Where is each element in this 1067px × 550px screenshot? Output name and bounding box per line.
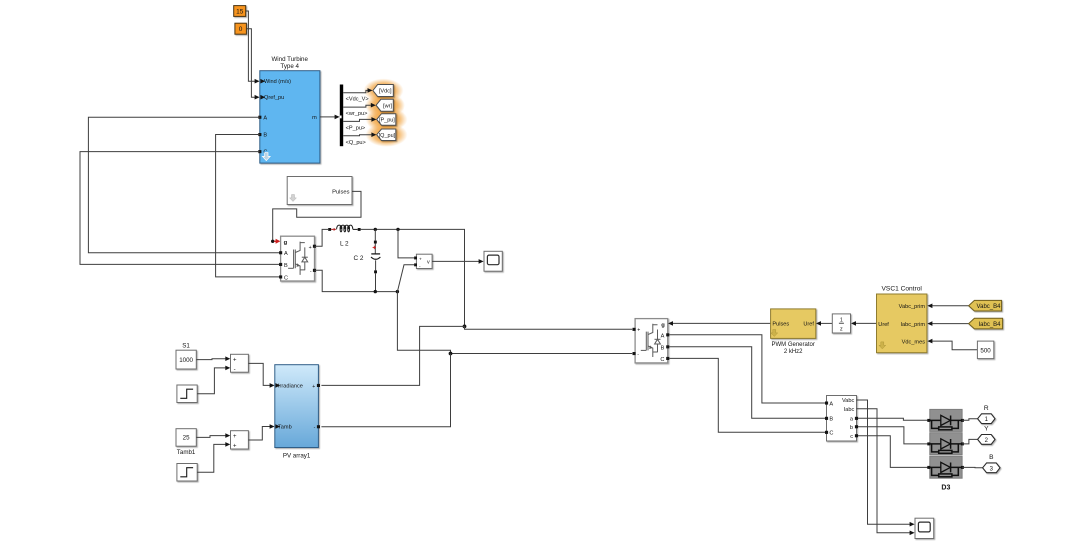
IGBT and diode icon xyxy=(641,324,661,357)
diode block D3-1 xyxy=(927,409,964,431)
svg-text:Wind (m/s): Wind (m/s) xyxy=(264,79,291,85)
from tag Iabc_B4 xyxy=(969,318,1003,329)
svg-text:<Q_pu>: <Q_pu> xyxy=(346,140,366,146)
svg-text:Vabc_prim: Vabc_prim xyxy=(899,304,926,310)
step block Step xyxy=(177,385,197,403)
svg-text:Pulses: Pulses xyxy=(772,322,789,328)
highlight glow behind goto tags xyxy=(364,79,408,147)
wire D3-1 to port 1 xyxy=(962,419,978,421)
wire Step1 to sum2 xyxy=(197,442,230,472)
svg-text:D3: D3 xyxy=(941,484,950,491)
svg-text:+: + xyxy=(637,328,640,334)
svg-text:B: B xyxy=(989,454,994,461)
svg-text:Tamb: Tamb xyxy=(278,425,292,431)
svg-text:[P_pu]: [P_pu] xyxy=(379,118,395,124)
svg-text:<Vdc_V>: <Vdc_V> xyxy=(346,97,369,103)
wire inverter C to measurement C xyxy=(669,358,826,432)
connection port 2 xyxy=(978,426,995,445)
svg-text:A: A xyxy=(263,115,267,121)
svg-text:+: + xyxy=(309,245,312,251)
svg-text:Y: Y xyxy=(984,426,989,433)
svg-text:b: b xyxy=(850,425,853,431)
wire VSC Uref to unit delay xyxy=(851,321,877,326)
sum block Sum1 xyxy=(231,354,249,373)
constant S1 1000 xyxy=(176,342,196,369)
svg-text:S1: S1 xyxy=(182,342,190,349)
wire measurement a to diode D3-1 xyxy=(858,418,929,420)
svg-text:[Q_pu]: [Q_pu] xyxy=(379,133,396,139)
svg-text:B: B xyxy=(263,133,267,139)
wire tap to voltage measurement plus xyxy=(398,229,414,258)
wire 1000 to sum1 xyxy=(196,356,230,361)
svg-text:C: C xyxy=(829,431,833,437)
step block Step1 xyxy=(177,464,197,482)
svg-text:<P_pu>: <P_pu> xyxy=(346,126,366,132)
wire converter minus to dc minus rail xyxy=(315,270,400,293)
svg-text:Iabc: Iabc xyxy=(844,407,855,413)
red flow arrow at converter g input xyxy=(274,239,280,244)
connection port 1 xyxy=(978,405,995,424)
wire D3-2 to port 2 xyxy=(962,439,978,444)
unit delay 1/z xyxy=(832,314,850,333)
svg-text:-: - xyxy=(310,269,312,275)
wire turbine B to converter C xyxy=(216,135,281,277)
svg-text:g: g xyxy=(661,323,665,329)
VSC1 Control block xyxy=(877,286,927,353)
wire Sum1 to Irradiance xyxy=(248,363,274,387)
svg-text:1: 1 xyxy=(840,318,843,324)
svg-text:25: 25 xyxy=(183,435,190,442)
svg-text:R: R xyxy=(984,405,989,412)
wire bus output P_pu xyxy=(343,117,376,122)
wire turbine C to converter B xyxy=(80,152,281,265)
svg-text:-: - xyxy=(314,425,316,431)
svg-text:Irradiance: Irradiance xyxy=(278,384,303,390)
svg-text:A: A xyxy=(829,401,833,407)
wire 25 to sum2 xyxy=(196,433,230,438)
goto tag Q_pu xyxy=(377,129,396,141)
svg-text:Uref: Uref xyxy=(878,322,889,328)
svg-text:-: - xyxy=(637,352,639,358)
svg-text:A: A xyxy=(284,251,288,257)
svg-text:B: B xyxy=(829,417,833,423)
dc plus rail to PV plus xyxy=(321,326,464,385)
svg-text:<wr_pu>: <wr_pu> xyxy=(346,111,368,117)
subsystem Pulses (boost control) xyxy=(287,177,352,205)
wire L2 to dc plus rail xyxy=(361,228,467,329)
capacitor C2 xyxy=(354,229,381,291)
svg-text:Type 4: Type 4 xyxy=(280,63,299,70)
bus selector xyxy=(340,85,343,147)
wire constant 0 to Qref_pu input xyxy=(246,29,259,100)
svg-text:PV array1: PV array1 xyxy=(283,452,311,459)
scope1 xyxy=(484,251,502,271)
sum block Sum2 xyxy=(231,431,249,450)
wire Pulses output to converter g xyxy=(271,191,361,243)
svg-text:Uref: Uref xyxy=(803,322,814,328)
wire converter + to inductor L2 xyxy=(315,229,329,246)
goto tag wr xyxy=(376,99,393,111)
wire unit delay to PWM Uref xyxy=(816,321,832,326)
svg-text:+: + xyxy=(312,384,315,390)
svg-text:Vabc: Vabc xyxy=(842,398,855,404)
svg-text:Qref_pu: Qref_pu xyxy=(264,95,284,101)
svg-text:g: g xyxy=(284,240,288,246)
wire measurement Iabc to scope2 xyxy=(857,409,915,535)
svg-text:C: C xyxy=(660,357,664,363)
from tag Vabc_B4 xyxy=(969,300,1002,311)
wire from tag Iabc_B4 to VSC xyxy=(927,321,968,326)
svg-text:[wr]: [wr] xyxy=(383,103,392,109)
wire voltage measurement to scope1 xyxy=(432,259,484,264)
svg-text:m: m xyxy=(312,115,317,121)
svg-text:+: + xyxy=(419,257,422,262)
svg-text:2 kHz2: 2 kHz2 xyxy=(784,349,803,355)
svg-text:B: B xyxy=(284,263,288,269)
inductor L2 xyxy=(328,225,360,247)
svg-text:+: + xyxy=(233,434,237,440)
svg-text:+: + xyxy=(233,357,237,363)
wire Sum2 to Tamb xyxy=(248,424,274,440)
three-phase VI measurement block xyxy=(825,396,858,442)
wire from tag Vabc_B4 to VSC xyxy=(927,304,968,309)
connection port 3 xyxy=(983,454,1000,473)
dc minus rail to inverter minus xyxy=(397,292,632,356)
scope2 xyxy=(915,518,934,538)
dc plus rail to inverter plus xyxy=(465,326,633,329)
svg-text:B: B xyxy=(661,345,665,351)
IGBT and diode icon xyxy=(288,242,308,275)
wire turbine m output to bus selector xyxy=(320,115,340,120)
svg-text:[Vdc]: [Vdc] xyxy=(379,89,392,95)
svg-text:C: C xyxy=(284,275,288,281)
PWM Generator block xyxy=(771,309,816,355)
svg-text:Tamb1: Tamb1 xyxy=(177,449,196,456)
inverter U2 bridge xyxy=(633,319,670,363)
svg-text:Iabc_prim: Iabc_prim xyxy=(900,322,925,328)
svg-text:z: z xyxy=(840,327,843,333)
dc minus rail to PV minus xyxy=(321,354,450,427)
wire tap to voltage measurement minus (diagonal) xyxy=(397,265,414,292)
PV array1 block xyxy=(275,365,320,460)
wire measurement Vabc to scope2 xyxy=(857,400,915,527)
wire D3-3 to port 3 xyxy=(962,466,983,468)
wire PWM pulses to inverter g xyxy=(668,321,771,326)
svg-text:c: c xyxy=(850,434,853,440)
wire measurement c to diode D3-3 xyxy=(858,436,929,468)
svg-text:C 2: C 2 xyxy=(354,255,364,262)
wire inverter A to measurement A xyxy=(669,335,826,403)
svg-text:15: 15 xyxy=(236,8,244,15)
svg-text:0: 0 xyxy=(239,26,243,33)
constant 500 xyxy=(977,341,993,359)
wire bus output Vdc_V xyxy=(343,88,372,93)
goto tag P_pu xyxy=(377,114,396,126)
svg-text:Vabc_B4: Vabc_B4 xyxy=(977,304,1002,310)
svg-text:VSC1 Control: VSC1 Control xyxy=(882,286,923,293)
svg-text:Iabc_B4: Iabc_B4 xyxy=(978,322,1001,328)
svg-text:v: v xyxy=(427,260,430,266)
constant block 0 xyxy=(235,23,247,34)
wire measurement b to diode D3-2 xyxy=(858,427,929,444)
diode block D3-3 xyxy=(927,456,964,478)
wire constant 500 to VSC Vdc_mes xyxy=(927,339,977,350)
svg-text:Pulses: Pulses xyxy=(332,190,350,196)
Wind Turbine Type 4 block xyxy=(258,56,320,163)
goto tag Vdc xyxy=(373,85,393,97)
svg-text:+: + xyxy=(233,443,237,449)
wire constant 15 to Wind input xyxy=(246,11,260,84)
svg-text:Wind Turbine: Wind Turbine xyxy=(271,56,308,63)
svg-text:500: 500 xyxy=(980,347,991,354)
constant Tamb1 25 xyxy=(176,429,196,456)
svg-text:Vdc_mes: Vdc_mes xyxy=(902,339,926,345)
wire bus output Q_pu xyxy=(343,132,376,137)
svg-text:A: A xyxy=(661,333,665,339)
constant block 15 xyxy=(234,6,246,17)
voltage measurement block V1 xyxy=(414,254,432,269)
wire Step to sum1 xyxy=(197,366,230,394)
wire inverter B to measurement B xyxy=(669,347,826,419)
converter U1 boost bridge xyxy=(279,236,316,281)
wire turbine A to converter A xyxy=(88,117,280,253)
svg-text:-: - xyxy=(234,367,236,373)
svg-text:1000: 1000 xyxy=(179,357,193,364)
svg-text:L 2: L 2 xyxy=(340,240,349,247)
svg-text:PWM Generator: PWM Generator xyxy=(772,342,815,348)
wire bus output wr_pu xyxy=(343,103,376,108)
diode block D3-2 xyxy=(927,433,964,455)
